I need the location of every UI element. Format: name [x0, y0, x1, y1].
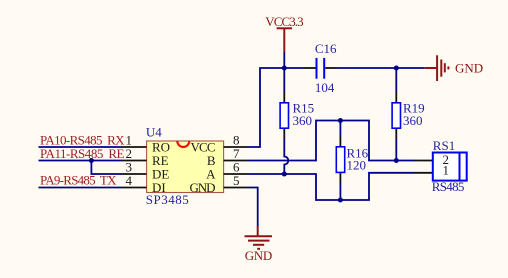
svg-text:PA11-RS485 RE: PA11-RS485 RE: [40, 146, 125, 161]
junction R16 top: [338, 118, 343, 123]
pin 2 stub (black): [122, 160, 147, 162]
resistor R19 top pin (black): [395, 92, 397, 102]
wire B net left: [249, 121, 415, 161]
resistor R19 bottom pin (black): [395, 129, 397, 139]
wire pin5 to ground: [249, 188, 258, 227]
svg-text:120: 120: [347, 158, 367, 173]
svg-text:5: 5: [233, 173, 240, 188]
pin 4 stub (black): [122, 187, 147, 189]
svg-text:GND: GND: [190, 180, 216, 195]
wire R16 bottom: [339, 183, 341, 200]
wire R19 to B net: [395, 139, 397, 161]
wire R16 top: [339, 121, 341, 137]
junction on B wire: [394, 158, 399, 163]
connector RS1: [433, 153, 467, 181]
svg-text:GND: GND: [455, 61, 483, 76]
resistor R19: [392, 103, 400, 128]
ground symbol GND (bottom): [245, 226, 273, 263]
pin 6 stub (black): [224, 173, 249, 175]
svg-text:104: 104: [315, 80, 335, 95]
wire pin1 RX: [39, 146, 122, 148]
IC U4 SP3485 transceiver body: [147, 141, 224, 193]
pin 3 stub (black): [122, 173, 147, 175]
capacitor C16 right pin (black): [325, 67, 337, 69]
junction on pin2 wire: [89, 158, 94, 163]
wire rail to R15: [283, 68, 285, 92]
wire rail to R19: [395, 68, 397, 92]
wire R15 to A with hop over B: [284, 139, 288, 174]
junction on A wire: [282, 172, 287, 177]
wire pin4 TX: [39, 187, 122, 189]
wire pin8 to VCC rail: [249, 68, 305, 147]
junction GND rail at R19: [394, 66, 399, 71]
RS1 pin 1 stub (black): [414, 172, 433, 174]
svg-text:4: 4: [126, 173, 133, 188]
svg-text:VCC3.3: VCC3.3: [265, 14, 303, 29]
resistor R16 bottom pin (black): [339, 173, 341, 183]
pin 7 stub (black): [224, 160, 249, 162]
resistor R15 bottom pin (black): [283, 129, 285, 139]
pin 8 stub (black): [224, 146, 249, 148]
svg-text:360: 360: [403, 113, 423, 128]
resistor R16: [336, 147, 344, 173]
wire VCC3.3 to rail: [283, 52, 285, 68]
junction VCC rail: [282, 66, 287, 71]
resistor R16 top pin (black): [339, 136, 341, 146]
svg-text:U4: U4: [146, 125, 162, 140]
svg-text:PA9-RS485 TX: PA9-RS485 TX: [40, 172, 117, 187]
svg-text:RS485: RS485: [432, 179, 465, 194]
capacitor C16 left pin (black): [304, 67, 316, 69]
resistor R15: [280, 103, 288, 128]
pin 5 stub (black): [224, 187, 249, 189]
wire A net: [249, 173, 415, 200]
junction R16 bottom: [338, 198, 343, 203]
svg-text:360: 360: [293, 113, 313, 128]
power port VCC3.3: [265, 14, 303, 52]
notch arc on U4: [177, 141, 189, 147]
svg-text:DI: DI: [152, 180, 166, 195]
svg-text:RS1: RS1: [433, 138, 455, 153]
wire pin2 RE: [39, 160, 122, 162]
power ground bar GND (right): [425, 55, 483, 81]
svg-text:1: 1: [442, 163, 449, 178]
svg-text:GND: GND: [245, 248, 273, 263]
RS1 pin 2 stub (black): [414, 160, 433, 162]
wire junction to pin3: [91, 161, 121, 175]
wire GND rail: [337, 67, 425, 69]
svg-text:C16: C16: [315, 41, 337, 56]
pin 1 stub (black): [122, 146, 147, 148]
capacitor C16: [317, 58, 325, 79]
resistor R15 top pin (black): [283, 92, 285, 102]
